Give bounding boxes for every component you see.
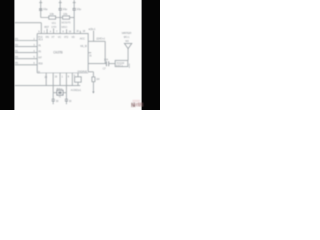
schematic text labels — [15, 7, 132, 103]
wire: bottom pin x60.1 — [59, 73, 61, 86]
wire: bottom pin x46.2 — [45, 73, 47, 86]
wire: IC corner exit y71.8 — [88, 71, 93, 73]
ground arrow at x93.4 — [92, 91, 94, 93]
wire: top stub pin x80.3 — [79, 31, 81, 34]
wire: net label drop x93.6 — [93, 31, 95, 42]
wire: +V rail A vertical x40.7 top — [40, 0, 42, 18]
wire: right pin stub y52.7 — [88, 52, 91, 54]
resistor R2 box — [63, 16, 70, 19]
wire: left pin row 4 y58.7 — [15, 58, 37, 60]
wire: left pin row 3 y52.6 — [15, 52, 37, 54]
svg-text:10µ: 10µ — [76, 7, 81, 11]
capacitor C7 series plates — [106, 61, 108, 66]
svg-text:VD1: VD1 — [51, 21, 56, 25]
wire: xtal cap leg x66.4 — [65, 93, 67, 105]
RF module J1 box — [115, 60, 128, 66]
svg-text:线图: 线图 — [136, 101, 144, 108]
wire: left pin row 2 y46.6 — [15, 46, 37, 48]
wire: left pin row 1 y40.5 — [15, 40, 37, 42]
wire: vertical x93.4 down — [92, 72, 94, 92]
svg-text:WRITE/R: WRITE/R — [122, 31, 132, 35]
svg-text:10k: 10k — [49, 12, 54, 16]
svg-text:GND/AVE: GND/AVE — [77, 69, 87, 73]
wire: left pin row 5 y64.8 — [15, 64, 37, 66]
wire: vertical x105.2 joining y41.3 to y63.6 — [104, 41, 106, 63]
antenna E1 triangle — [124, 43, 131, 48]
node: polarity + on rail C — [73, 2, 76, 4]
svg-text:RS: RS — [46, 35, 50, 39]
svg-text:C4.07B: C4.07B — [53, 50, 62, 54]
wire: pin1 vertical x41.3 — [40, 23, 42, 34]
op-amp U1 IC body box — [37, 34, 88, 73]
wire: resistor row left segment y17.5 — [41, 17, 63, 19]
wire: right pin y63.6 horizontal — [88, 63, 106, 65]
svg-text:4MHz: 4MHz — [56, 87, 63, 91]
wire: bottom pin x53.2 (XTAL1) — [52, 73, 54, 93]
svg-text:MOSI P5: MOSI P5 — [61, 21, 71, 25]
svg-text:DTR: DTR — [51, 25, 56, 29]
wire: xtal cap leg x53.2 — [52, 93, 54, 105]
wire: cap to RF box — [109, 63, 116, 65]
crystal Y1 box — [57, 90, 63, 95]
node: polarity + on rail A — [39, 2, 42, 4]
wire: ground bus y85.6 — [15, 85, 81, 87]
svg-text:10k: 10k — [63, 12, 68, 16]
resistor R5 box vertical — [92, 77, 95, 82]
svg-text:VC: VC — [58, 35, 61, 39]
wire: net to pin1 horizontal y22.7 — [15, 22, 42, 24]
wire: top stub pin x47.1 — [46, 29, 48, 34]
wire: bottom pin x66.4 (XTAL2) — [65, 73, 67, 93]
red watermark text bottom right — [131, 100, 143, 109]
capacitor C1 plates on rail A — [39, 9, 42, 11]
svg-text:VD: VD — [71, 35, 74, 39]
svg-text:10µ: 10µ — [62, 7, 67, 11]
svg-text:(2)XD+1: (2)XD+1 — [96, 36, 105, 40]
svg-text:≡(3)+1: ≡(3)+1 — [88, 27, 95, 31]
black letterbox bar right — [142, 0, 160, 110]
wire: antenna pole x128.1 — [127, 49, 129, 61]
wire: resistor row right segment y17.5 — [70, 17, 75, 19]
svg-text:RST: RST — [44, 25, 49, 29]
paper background — [0, 0, 160, 110]
svg-text:ANT1: ANT1 — [116, 65, 124, 68]
wire: bottom pin x78.0 through R4 — [77, 73, 79, 86]
wire: top stub pin x53.6 — [53, 28, 55, 33]
svg-text:MISO: MISO — [61, 25, 67, 29]
svg-text:A/CC: A/CC — [80, 37, 86, 41]
capacitor C5 plates — [65, 99, 68, 101]
capacitor C2 plates on rail B — [59, 9, 62, 11]
black letterbox bar left — [0, 0, 14, 110]
svg-text:9F1 1: 9F1 1 — [124, 35, 130, 39]
wire: crystal branch y92.7 — [53, 92, 66, 94]
wire: top stub pin x66.6 — [66, 29, 68, 33]
svg-text:10µ: 10µ — [43, 7, 48, 11]
wire: +V rail B vertical x60.2 — [59, 0, 61, 34]
node: polarity + on rail B — [59, 2, 62, 4]
capacitor C4 plates — [52, 99, 55, 101]
resistor R1 box — [49, 16, 56, 19]
wire: bottom pin x72.3 — [71, 73, 73, 86]
capacitor C3 plates on rail C — [73, 9, 76, 11]
crystal Y1 inner mark — [58, 92, 61, 94]
svg-text:M1_30: M1_30 — [80, 44, 87, 48]
wire: right pin y41.3 horizontal — [88, 40, 105, 42]
svg-text:A GND(+1: A GND(+1 — [71, 88, 82, 92]
wire: IC bottom edge — [37, 72, 88, 74]
wire: +V rail C vertical x74.2 — [73, 0, 75, 34]
wire: RF box ground stub — [128, 64, 130, 69]
resistor R4 box — [75, 77, 82, 82]
